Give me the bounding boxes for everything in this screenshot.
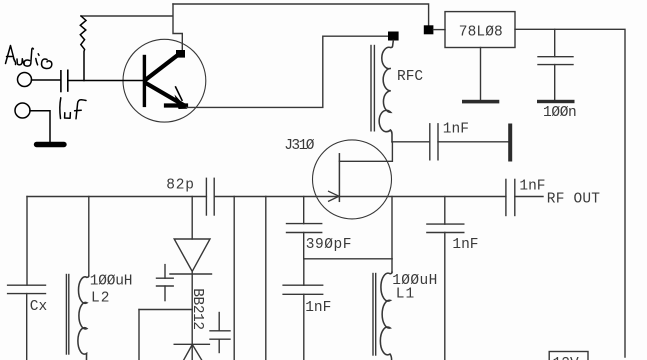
capacitor Cx [8, 285, 46, 360]
resistor R1 (hand-drawn zigzag) [80, 16, 86, 81]
wire drop at node x234 [233, 197, 235, 360]
wire tuning tap [139, 309, 192, 311]
capacitor 1nF tank right [427, 197, 464, 360]
svg-text:BB212: BB212 [189, 288, 205, 330]
svg-text:RFC: RFC [397, 69, 423, 85]
svg-text:39ØpF: 39ØpF [306, 237, 352, 253]
svg-text:1ØØuH: 1ØØuH [90, 274, 133, 290]
ground bar regulator [462, 100, 499, 104]
svg-text:1nF: 1nF [452, 237, 478, 253]
capacitor 1nF bypass (vertical plates) [430, 124, 438, 160]
svg-text:L2: L2 [91, 290, 110, 306]
capacitor 82p plates [206, 178, 214, 215]
inductor L2 coil [66, 275, 88, 360]
node square B (regulator input junction) [424, 25, 434, 34]
wire varicap drop [191, 197, 193, 240]
capacitor padding C (beside D2, hand style) [210, 313, 230, 353]
diode D1 varicap top [170, 239, 212, 344]
svg-text:1nF: 1nF [519, 178, 545, 194]
wire regulator ground lead [480, 48, 482, 100]
transistor Q1 collector stroke (bold) [147, 55, 179, 80]
transistor Q1 emitter stroke (bold) [147, 84, 184, 106]
inductor RFC coil [371, 41, 393, 142]
wire C-in to base [69, 80, 144, 82]
capacitor 100n [538, 29, 573, 100]
wire square B to regulator [433, 29, 445, 31]
svg-text:1nF: 1nF [443, 122, 469, 138]
ground bar input (bold) [37, 142, 65, 147]
J310 gate arrowhead [329, 191, 339, 201]
node square A (RFC top junction) [388, 32, 399, 41]
svg-text:78LØ8: 78LØ8 [459, 25, 503, 41]
svg-text:Cx: Cx [30, 299, 48, 315]
svg-text:L1: L1 [396, 287, 415, 303]
diode D2 varicap bottom (points up, clipped) [174, 344, 209, 360]
capacitor padding C (beside D1, hand style) [157, 265, 174, 301]
svg-text:12V: 12V [553, 356, 579, 360]
label Audio (handwritten) [6, 46, 52, 69]
wire tank bottom run [304, 258, 392, 260]
capacitor RF-out 1nF plates [506, 179, 515, 215]
transistor J310 circle U2 [313, 140, 392, 219]
svg-text:J31Ø: J31Ø [284, 138, 315, 154]
wire Cx drop [26, 197, 28, 286]
terminal input bottom circle [15, 103, 30, 118]
terminal input top circle [18, 73, 32, 87]
J310 drain lead [339, 142, 392, 162]
svg-text:1nF: 1nF [305, 300, 331, 316]
svg-text:1ØØn: 1ØØn [543, 105, 576, 121]
wire emitter run [187, 36, 389, 107]
wire main tank/gate/source run [27, 196, 206, 198]
transistor Q1 arrow barb thin stroke [176, 87, 182, 100]
transistor Q1 emitter arrowhead [175, 95, 188, 110]
capacitor 390pF [287, 197, 322, 259]
svg-text:RF OUT: RF OUT [547, 191, 601, 207]
node square collector junction [176, 50, 185, 58]
feedthrough post bar [508, 124, 512, 162]
wire terminal to C-in [32, 79, 61, 81]
ground bar 100n [537, 100, 575, 103]
wire L2 drop [88, 197, 90, 277]
svg-text:82p: 82p [166, 177, 195, 193]
capacitor C-in 1uf plates (hand-drawn) [60, 71, 62, 92]
wire drop at node x266 [265, 197, 267, 360]
wire bypass cap to feedthrough [438, 141, 508, 143]
wire RFC bottom to bypass cap [392, 141, 430, 143]
regulator U1 78L08 box [445, 12, 515, 48]
inductor L1 coil [373, 259, 392, 360]
J310 channel bar [338, 154, 340, 202]
wire RF out stub [515, 196, 543, 198]
wire terminal to ground [30, 111, 50, 142]
wire regulator output to rail [515, 29, 625, 357]
label 1uf (handwritten) [60, 98, 86, 119]
battery box 12V [549, 352, 588, 360]
wire collector riser [173, 4, 182, 50]
capacitor 1nF tank left [283, 259, 323, 360]
wire top rail 8V [173, 4, 429, 25]
wire source drop to tank [391, 197, 393, 259]
wire resistor feed [81, 15, 173, 17]
transistor Q1 circle [123, 39, 206, 122]
transistor Q1 emitter arrow bar (bold) [166, 103, 186, 107]
transistor Q1 base bar (bold) [143, 57, 146, 106]
